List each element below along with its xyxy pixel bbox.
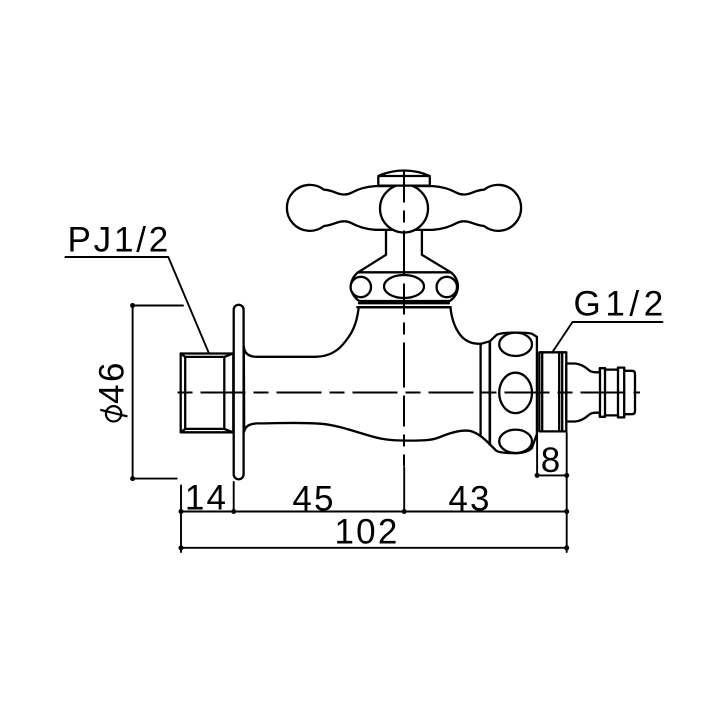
vertical centerline: [403, 172, 405, 467]
svg-text:8: 8: [541, 441, 560, 480]
dimension phi46: [133, 306, 183, 479]
wire: shoulder band lines: [479, 344, 481, 436]
coupling nut: [490, 333, 537, 454]
label phi46: [106, 406, 121, 421]
wall flange: [234, 305, 244, 480]
handle right arm: [410, 185, 521, 231]
packing nut front facet ellipse: [384, 275, 424, 298]
dimension 14/45/43 line: [181, 433, 567, 553]
svg-text:46: 46: [93, 360, 132, 404]
handle stem: [385, 229, 387, 255]
coupling nut bottom lobe: [499, 430, 532, 453]
faucet body (spout body with bell): [244, 307, 490, 444]
svg-text:G1/2: G1/2: [574, 284, 668, 323]
hex nut PJ1/2: [181, 354, 234, 433]
packing nut right lobe: [437, 277, 457, 297]
dimension 102 line: [181, 547, 567, 549]
horizontal centerline: [178, 392, 641, 394]
bonnet base lines: [359, 302, 449, 304]
handle cap: [378, 170, 430, 185]
svg-text:PJ1/2: PJ1/2: [68, 221, 172, 260]
dimension 8 line: [536, 433, 538, 476]
handle hub circle: [380, 185, 428, 233]
coupling nut top lobe: [499, 333, 532, 356]
svg-text:43: 43: [448, 479, 491, 518]
G1/2 threaded ring: [539, 352, 566, 431]
packing nut left lobe: [351, 277, 371, 297]
coupling nut front ellipse: [499, 373, 532, 413]
hose nipple: [566, 364, 635, 422]
leader PJ1/2: [65, 257, 208, 353]
svg-text:45: 45: [292, 479, 335, 518]
packing nut band: [351, 272, 458, 301]
leader G1/2: [553, 322, 663, 352]
svg-text:14: 14: [185, 479, 228, 518]
bonnet flare trapezoid: [358, 255, 451, 272]
svg-text:102: 102: [335, 513, 400, 552]
handle left arm: [287, 185, 398, 231]
